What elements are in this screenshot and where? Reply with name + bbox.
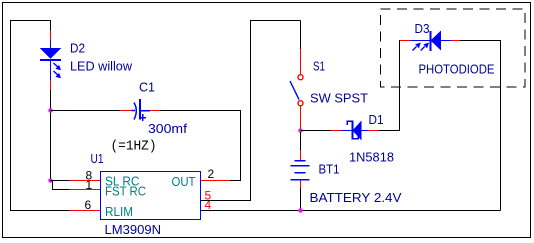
svg-text:S1: S1 bbox=[313, 59, 325, 74]
node: junction LED/pin8 bbox=[48, 178, 52, 182]
wire: bottom rail pin4 to photodiode loop bbox=[201, 210, 501, 212]
wire: to pin1 bbox=[51, 181, 70, 190]
pin stub 8 (red) bbox=[70, 180, 101, 182]
svg-text:LM3909N: LM3909N bbox=[105, 222, 162, 237]
wire: battery to bottom rail bbox=[300, 188, 302, 211]
dashed enclosure around D3 bbox=[381, 9, 526, 87]
svg-text:D2: D2 bbox=[70, 41, 85, 56]
wire: pin5 riser to top wire to S1 bbox=[201, 21, 301, 201]
svg-text:C1: C1 bbox=[139, 80, 155, 95]
wire: battery bottom stub (red) bbox=[300, 181, 302, 189]
svg-text:BT1: BT1 bbox=[319, 162, 340, 177]
wire: battery top stub (red) bbox=[300, 150, 302, 161]
wire: pin6 to left rail to LED anode (top-left loop) bbox=[11, 21, 70, 211]
wire: D3 left stub (red) bbox=[400, 40, 411, 42]
wire: S1 upper lead bbox=[300, 21, 302, 50]
pin stub 1 (red) bbox=[70, 189, 101, 191]
wire: C1 left stub (red) bbox=[120, 110, 131, 112]
svg-text:RLIM: RLIM bbox=[105, 204, 133, 219]
wire: LED anode stub (red) bbox=[50, 31, 52, 41]
wire: C1 right stub (red) bbox=[150, 110, 160, 112]
svg-text:300mf: 300mf bbox=[148, 121, 187, 136]
IC U1 LM3909N bbox=[101, 172, 201, 220]
wire: D3 to bottom rail bbox=[460, 41, 501, 211]
wire: junction down to battery bbox=[300, 132, 302, 150]
svg-text:OUT: OUT bbox=[172, 174, 196, 189]
pin stub 2 (red) bbox=[201, 180, 231, 182]
wire: C1 left wire bbox=[51, 110, 121, 112]
diode D1 (schottky 1N5818) bbox=[341, 121, 368, 141]
wire: D1 to D3 riser bbox=[379, 41, 401, 131]
wire: to pin8 bbox=[51, 180, 70, 182]
node: junction LED/C1 bbox=[48, 108, 52, 112]
svg-text:1: 1 bbox=[86, 178, 93, 192]
svg-text:6: 6 bbox=[85, 198, 92, 212]
wire: junction to D1 bbox=[301, 130, 332, 132]
LED D2 bbox=[40, 48, 61, 81]
svg-text:PHOTODIODE: PHOTODIODE bbox=[419, 62, 495, 77]
capacitor C1 bbox=[131, 99, 150, 121]
svg-text:D1: D1 bbox=[369, 112, 384, 127]
svg-text:D3: D3 bbox=[415, 21, 430, 36]
svg-text:SW SPST: SW SPST bbox=[310, 91, 368, 106]
photodiode D3 bbox=[411, 31, 452, 52]
svg-text:U1: U1 bbox=[91, 151, 104, 166]
svg-text:FST RC: FST RC bbox=[105, 185, 146, 199]
switch S1 bbox=[290, 75, 303, 106]
node: junction S1/BT1/D1 bbox=[298, 128, 302, 132]
wire: D3 right stub (red) bbox=[451, 40, 460, 42]
wire: D1 cathode stub (red) bbox=[368, 130, 379, 132]
pin stub 6 (red) bbox=[70, 210, 101, 212]
svg-text:2: 2 bbox=[208, 167, 215, 181]
wire: C1 to pin2 riser bbox=[160, 111, 241, 181]
wire: LED cathode down to pin8 junction bbox=[50, 90, 52, 181]
wire: S1 upper stub (red) bbox=[300, 49, 302, 74]
node: junction battery/rail bbox=[298, 208, 302, 212]
wire: S1 lower stub (red) bbox=[300, 106, 302, 131]
wire: LED cathode stub (red) bbox=[50, 81, 52, 91]
svg-text:(=1HZ): (=1HZ) bbox=[111, 140, 157, 155]
battery BT1 bbox=[291, 161, 310, 180]
wire: D1 anode stub (red) bbox=[331, 130, 341, 132]
svg-text:1N5818: 1N5818 bbox=[349, 150, 394, 165]
svg-text:LED willow: LED willow bbox=[70, 59, 133, 74]
svg-text:BATTERY 2.4V: BATTERY 2.4V bbox=[310, 190, 402, 205]
